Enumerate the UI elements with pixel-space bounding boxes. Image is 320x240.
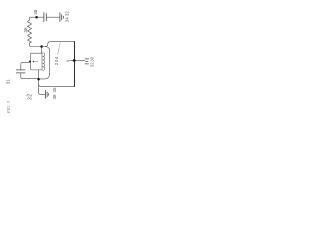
resistor R1 zigzag <box>28 20 32 43</box>
node C junction dot <box>37 78 40 81</box>
wire node D to battery B1 <box>75 59 84 61</box>
inductor L1 coil bumps <box>43 53 45 71</box>
battery B1 bars (rotated, horizontal) <box>85 59 89 64</box>
svg-text:32: 32 <box>28 93 34 100</box>
svg-text:31: 31 <box>6 79 11 85</box>
node B junction dot <box>40 45 43 48</box>
svg-text:36: 36 <box>23 27 29 33</box>
svg-text:36: 36 <box>52 87 57 92</box>
wire outer loop down right side <box>40 47 50 79</box>
wire right vertical rail <box>74 42 76 87</box>
svg-text:30: 30 <box>89 56 94 61</box>
svg-text:FIG. 3: FIG. 3 <box>6 100 11 114</box>
wire bottom rail to right vertical <box>39 84 75 86</box>
wire node B to box top <box>41 48 43 54</box>
svg-text:38: 38 <box>52 94 57 99</box>
dot inside box <box>33 61 35 63</box>
wire from C1 to ground G1 <box>46 16 59 18</box>
capacitor C1 right plate <box>45 14 47 21</box>
svg-text:6: 6 <box>66 60 70 62</box>
wire node C to left capacitor branch <box>21 73 38 78</box>
crystal box X1 <box>31 53 42 70</box>
wire top horizontal from resistor to capacitor C1 <box>30 17 44 20</box>
svg-text:34: 34 <box>64 17 69 22</box>
svg-text:32: 32 <box>89 62 94 67</box>
dash inside box <box>35 61 38 63</box>
dot on box left edge <box>29 61 31 63</box>
node A junction dot <box>35 16 38 19</box>
ground G2 (rotated, bars vertical) <box>45 90 48 98</box>
tick near label 32 bottom left <box>26 94 27 97</box>
node D junction dot <box>73 59 76 62</box>
wire C2 top to box left dot <box>21 62 29 69</box>
svg-text:204: 204 <box>54 56 59 65</box>
svg-text:32: 32 <box>64 11 69 16</box>
resistor bottom lead + wire to node B <box>30 43 46 47</box>
wire node C down to ground G2 <box>39 80 45 94</box>
wire box bottom to node C <box>38 70 40 78</box>
wire arc up to top rail <box>45 42 74 47</box>
lead line from label 204 up to top rail <box>58 43 61 55</box>
capacitor C2 plates <box>16 70 25 73</box>
svg-text:38: 38 <box>33 9 38 15</box>
ground G1 (rotated, bars vertical) <box>60 13 63 22</box>
lead line from label to node D <box>70 60 73 62</box>
capacitor C1 left plate <box>43 13 45 22</box>
